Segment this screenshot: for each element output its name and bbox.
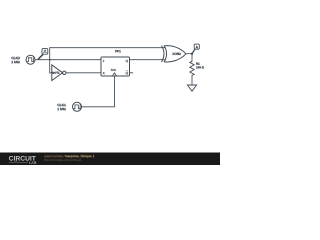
resistor R1 — [190, 61, 204, 75]
flip-flop FF1 — [101, 50, 130, 76]
wire to NOT1 input — [50, 72, 52, 74]
ground — [187, 85, 196, 91]
wire resistor to ground — [191, 75, 193, 85]
footer text — [44, 155, 95, 162]
label A — [196, 46, 198, 48]
label XOR2 — [172, 53, 180, 55]
wire CLK1 to FF1 clock — [85, 76, 115, 107]
wire node A to resistor — [191, 54, 193, 62]
label 100 Ohm — [196, 66, 204, 68]
junction dot — [49, 59, 51, 61]
pin J — [103, 60, 104, 62]
label R1 — [196, 63, 199, 65]
pin Q-bar — [126, 72, 128, 75]
xor gate XOR2 — [162, 46, 186, 62]
wire NOT1 output to FF1 K input — [66, 72, 101, 74]
footer bar — [0, 153, 220, 166]
circuitlab logo — [9, 156, 36, 164]
wire XOR2 output to node — [186, 53, 192, 55]
clock edge marker — [112, 73, 116, 76]
label CLK2 value — [11, 57, 19, 63]
wire CLK2 to junction — [40, 59, 50, 61]
clock source CLK2 — [26, 55, 40, 64]
wire junction to FF1 J input — [50, 59, 101, 61]
label NOT1 — [52, 72, 59, 74]
wire FF1 Q to XOR2 input — [130, 59, 166, 61]
wire vertical at junction — [49, 48, 51, 73]
label FF1 — [115, 50, 120, 52]
label CLK1 value — [57, 104, 65, 110]
pin CLK label — [111, 69, 116, 71]
node A — [191, 44, 199, 55]
overline of Q-bar — [126, 70, 128, 72]
scope probe icon — [38, 48, 47, 59]
clock source CLK1 — [73, 102, 86, 111]
wire top to XOR2 input — [50, 47, 165, 49]
pin stub Q-bar — [130, 72, 133, 74]
pin Q — [126, 60, 128, 63]
pin K — [103, 72, 105, 74]
inverter NOT1 — [52, 65, 66, 81]
